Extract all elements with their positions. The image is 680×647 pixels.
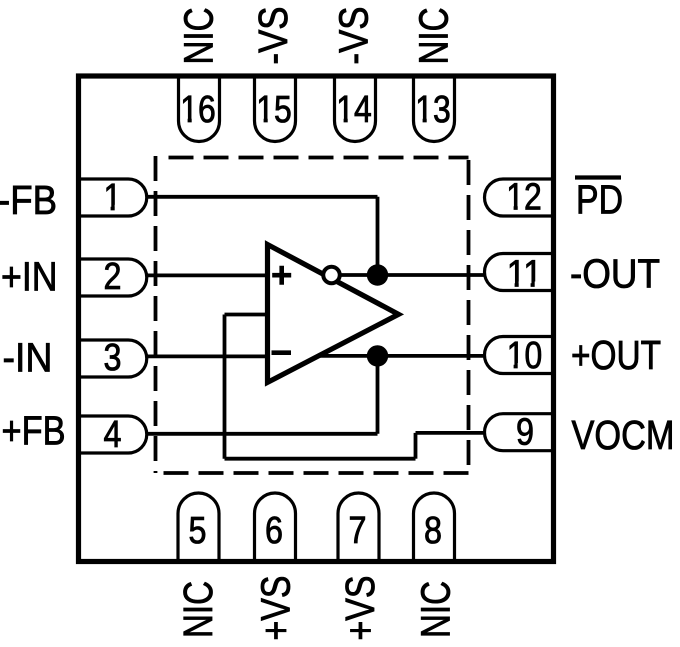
pin 5 <box>178 493 219 562</box>
inversion bubble on -OUT <box>323 267 340 284</box>
svg-text:11: 11 <box>507 254 543 296</box>
wire VOCM bottom horizontal <box>225 457 416 461</box>
svg-text:-VS: -VS <box>250 7 296 65</box>
op-amp U1 triangle <box>268 245 399 383</box>
svg-text:2: 2 <box>104 256 122 298</box>
pin 8 <box>414 493 455 562</box>
svg-text:-IN: -IN <box>3 335 53 381</box>
wire VOCM to pin 9 <box>416 431 486 435</box>
pin 9 <box>485 414 554 451</box>
op-amp + input symbol <box>272 266 291 285</box>
exposed pad / functional block boundary (dashed) <box>156 156 469 473</box>
svg-text:NIC: NIC <box>413 581 459 638</box>
svg-text:NIC: NIC <box>176 8 222 65</box>
svg-text:10: 10 <box>507 335 543 377</box>
op-amp - input symbol <box>272 350 292 355</box>
pin 6 <box>255 493 296 562</box>
svg-text:+OUT: +OUT <box>571 332 661 378</box>
pin 4 <box>79 416 147 453</box>
overline of PD <box>575 175 621 179</box>
pin 15 <box>255 75 296 141</box>
svg-text:15: 15 <box>256 89 292 131</box>
pin 13 <box>414 75 455 141</box>
svg-text:NIC: NIC <box>411 8 457 65</box>
pin 16 <box>178 75 219 141</box>
pin 1 <box>79 179 147 216</box>
svg-text:+IN: +IN <box>1 253 58 299</box>
svg-text:3: 3 <box>104 337 122 379</box>
IC package body outline <box>79 76 554 562</box>
svg-text:1: 1 <box>104 177 122 219</box>
svg-text:7: 7 <box>349 510 367 552</box>
wire -OUT from bubble to pin 11 <box>338 273 485 277</box>
pin 2 <box>79 259 147 296</box>
svg-text:8: 8 <box>424 510 442 552</box>
svg-text:16: 16 <box>180 89 216 131</box>
svg-text:-OUT: -OUT <box>570 250 660 296</box>
svg-text:14: 14 <box>336 89 372 131</box>
svg-text:+FB: +FB <box>2 408 66 454</box>
wire VOCM horizontal into op-amp left edge <box>225 313 269 317</box>
svg-text:NIC: NIC <box>175 581 221 638</box>
junction dot -OUT node <box>367 264 388 285</box>
svg-text:+VS: +VS <box>337 576 383 641</box>
pin 12 <box>485 179 554 216</box>
wire VOCM vertical left leg <box>223 315 227 459</box>
junction dot +OUT node <box>367 345 388 366</box>
wire -FB vertical down to -OUT node <box>376 197 380 275</box>
svg-text:13: 13 <box>415 89 451 131</box>
pin 3 <box>79 340 147 377</box>
svg-text:5: 5 <box>189 510 207 552</box>
wire +OUT from op-amp to pin 10 <box>319 354 486 358</box>
wire -IN pin3 to op-amp <box>146 354 268 358</box>
pin 10 <box>485 337 554 374</box>
wire VOCM step vertical <box>414 433 418 459</box>
pin 11 <box>485 254 554 291</box>
svg-text:+VS: +VS <box>253 576 299 641</box>
pin 7 <box>338 493 379 562</box>
wire +IN pin2 to op-amp <box>146 273 268 277</box>
svg-text:-FB: -FB <box>0 177 57 223</box>
digit-1 foot covers (font correction) <box>105 205 110 211</box>
svg-text:12: 12 <box>506 176 542 218</box>
wire +FB vertical up to +OUT node <box>376 356 380 434</box>
wire -FB pin1 horizontal <box>146 195 378 199</box>
svg-text:PD: PD <box>576 177 623 223</box>
svg-text:9: 9 <box>516 412 534 454</box>
svg-text:4: 4 <box>104 414 122 456</box>
svg-text:VOCM: VOCM <box>572 412 675 458</box>
svg-text:-VS: -VS <box>331 7 377 65</box>
pin 14 <box>335 75 376 141</box>
svg-text:6: 6 <box>265 510 283 552</box>
wire +FB pin4 horizontal <box>146 432 378 436</box>
